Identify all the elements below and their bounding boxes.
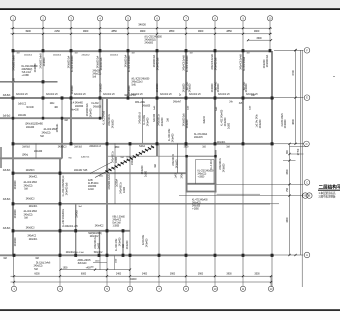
frame bottom border [0, 309, 340, 320]
wall x=75.7 lower-left [75, 204, 77, 256]
bottom overall dimension 24000 [11, 277, 273, 283]
labels under row A [17, 52, 251, 56]
svg-text:240x5C3: 240x5C3 [58, 147, 67, 149]
top dimension line bays [11, 27, 273, 35]
svg-text:2150: 2150 [54, 29, 60, 33]
svg-text:240x400: 240x400 [259, 119, 262, 128]
svg-text:240x500: 240x500 [93, 107, 102, 109]
interior beam upper-left bay y=82 [0, 80, 58, 83]
wall grid 5 x=128 [127, 51, 129, 98]
mid band horizontal annotations [18, 95, 256, 157]
svg-text:240x(C2): 240x(C2) [198, 174, 207, 176]
svg-text:240x5C3: 240x5C3 [26, 228, 35, 230]
svg-text:3900: 3900 [254, 29, 260, 33]
stair side lines [90, 144, 115, 205]
svg-text:2850: 2850 [226, 29, 232, 33]
svg-text:240x400 2x6: 240x400 2x6 [100, 57, 103, 70]
wall grid 7 x=186 [185, 51, 187, 276]
svg-text:KL-4C2 240x500: KL-4C2 240x500 [186, 55, 189, 72]
beam row G y=231 [12, 230, 130, 232]
svg-text:1900: 1900 [63, 267, 69, 269]
svg-text:240x4C2: 240x4C2 [81, 55, 90, 57]
svg-text:34000: 34000 [138, 22, 146, 26]
svg-text:4300: 4300 [286, 217, 289, 223]
svg-text:WKL-240x: WKL-240x [135, 102, 146, 104]
svg-text:3800: 3800 [184, 146, 190, 148]
grid bubble top 2 [40, 16, 45, 51]
grid bubble bottom 6 [127, 276, 132, 291]
svg-text:KL-4C2 240x500: KL-4C2 240x500 [71, 55, 74, 72]
svg-text:240x400 2x6: 240x400 2x6 [156, 57, 159, 70]
svg-text:240x4C1: 240x4C1 [29, 177, 38, 179]
svg-text:3800: 3800 [114, 147, 120, 149]
right vertical dimension line lower [283, 143, 304, 256]
svg-text:240x500: 240x500 [14, 180, 17, 189]
svg-text:240x500: 240x500 [189, 83, 192, 92]
title 二层结构平面图 [318, 184, 340, 191]
svg-text:240x500: 240x500 [176, 159, 179, 168]
svg-text:3900: 3900 [140, 29, 146, 33]
svg-text:240x500: 240x500 [223, 163, 226, 172]
rotated beam labels on upper walls [13, 53, 269, 94]
grid line 4 x=100 [99, 34, 101, 118]
svg-text:240x4C2: 240x4C2 [110, 55, 119, 57]
svg-text:JxB-1C2: JxB-1C2 [18, 104, 27, 106]
stair area annotations [99, 150, 226, 177]
top dimension line overall 34000 [138, 22, 146, 26]
svg-text:240x400: 240x400 [90, 108, 93, 117]
svg-text:8x6 6x40: 8x6 6x40 [78, 263, 87, 265]
svg-text:1.本层梁顶标高: 1.本层梁顶标高 [319, 191, 336, 195]
svg-text:3500: 3500 [254, 273, 260, 276]
svg-text:3x400: 3x400 [98, 242, 101, 249]
svg-text:240x500 x3: 240x500 x3 [139, 112, 142, 124]
svg-text:240x400 2x6: 240x400 2x6 [214, 57, 217, 70]
grid line 2 x=43 [42, 34, 44, 118]
small dim marks x=114.5 bottom [115, 256, 118, 270]
svg-text:+-0.080: +-0.080 [22, 75, 30, 77]
wall x=62 mid-left [61, 118, 63, 159]
grid bubble top 3 [68, 16, 73, 51]
svg-text:C: C [306, 180, 308, 184]
grid bubble bottom 1 [11, 276, 16, 291]
svg-text:(240x): (240x) [22, 155, 28, 157]
svg-text:240x500: 240x500 [183, 83, 186, 92]
svg-text:240x500(2): 240x500(2) [22, 69, 33, 71]
columns row D [12, 142, 274, 145]
svg-text:240x4C2 +C5: 240x4C2 +C5 [64, 226, 78, 228]
svg-text:3x8-4C2 1/3: 3x8-4C2 1/3 [74, 94, 86, 96]
svg-text:3x8-4C2 1/3: 3x8-4C2 1/3 [103, 94, 115, 96]
svg-text:5x8): 5x8) [132, 85, 136, 87]
grid bubble top 7 [183, 16, 188, 51]
mid band rotated annotations [56, 103, 287, 142]
svg-text:KL-3C2 240x5: KL-3C2 240x5 [103, 110, 106, 125]
note fragment right edge [333, 76, 336, 78]
svg-text:240x500 2x6x8: 240x500 2x6x8 [13, 55, 16, 71]
svg-text:4700: 4700 [291, 70, 295, 76]
svg-text:240x5: 240x5 [131, 158, 134, 165]
svg-text:6000: 6000 [81, 273, 87, 276]
svg-text:3x8-4C2 1/3: 3x8-4C2 1/3 [160, 94, 172, 96]
beam row B y=98 [0, 97, 304, 99]
svg-text:1-2850: 1-2850 [113, 225, 120, 227]
svg-text:2.图中未注明板: 2.图中未注明板 [319, 194, 336, 198]
svg-text:3x8-400: 3x8-400 [153, 113, 156, 122]
svg-text:240x500: 240x500 [211, 83, 214, 92]
svg-text:2x300: 2x300 [115, 156, 118, 163]
wall left edge x=1 [0, 147, 2, 168]
svg-text:hb=100: hb=100 [26, 107, 34, 109]
beam row E y=173 [12, 172, 186, 174]
svg-text:240x4C2: 240x4C2 [53, 55, 62, 57]
rotated stubs below row B [154, 105, 252, 111]
wall x=123 lower-left [122, 231, 124, 256]
svg-text:3600: 3600 [256, 37, 262, 40]
wall x=60 lower-left [59, 159, 61, 277]
svg-text:240x500: 240x500 [145, 42, 154, 45]
beam row C y=118 [0, 117, 103, 119]
grid bubble bottom 3 [57, 276, 62, 291]
svg-text:+-2850: +-2850 [192, 209, 199, 211]
svg-text:3x8x40: 3x8x40 [203, 116, 206, 124]
svg-text:二层结构平面图: 二层结构平面图 [319, 184, 340, 191]
svg-text:240x4C1: 240x4C1 [29, 239, 38, 241]
svg-text:240x500: 240x500 [284, 119, 287, 128]
svg-text:240x500 2x4: 240x500 2x4 [266, 54, 269, 67]
columns row B [12, 96, 274, 99]
svg-text:240x500: 240x500 [75, 106, 84, 108]
wall grid 6 x=157 [156, 51, 158, 156]
wall x=102.5 box right [102, 98, 104, 119]
stair flight diagonal [95, 146, 154, 178]
grid bubble top 9 [240, 16, 245, 51]
svg-text:3900: 3900 [198, 273, 204, 276]
svg-text:240x500: 240x500 [88, 186, 97, 188]
svg-text:240x500: 240x500 [217, 83, 220, 92]
grid bubble top 8 [212, 16, 217, 51]
beam row y=156.2 middle [107, 155, 216, 157]
svg-text:41.85 240x: 41.85 240x [88, 183, 99, 185]
svg-text:240x300: 240x300 [192, 206, 201, 208]
svg-text:240x5C3: 240x5C3 [26, 199, 35, 201]
beam row short left y=158 [0, 157, 62, 159]
svg-text:4x95: 4x95 [88, 180, 93, 182]
svg-text:DxK 3x8: DxK 3x8 [113, 222, 122, 224]
svg-text:1x40: 1x40 [175, 173, 178, 179]
svg-text:2850: 2850 [169, 29, 175, 33]
svg-text:3900: 3900 [198, 29, 204, 33]
svg-text:3900: 3900 [170, 273, 176, 276]
svg-text:240x(C2): 240x(C2) [93, 74, 102, 76]
top sub dimension 3600 right [247, 37, 272, 41]
row bubble A right [294, 252, 309, 258]
columns rows E F left [12, 172, 62, 233]
note line 2 [319, 194, 336, 198]
svg-text:3x8-5x3: 3x8-5x3 [3, 115, 11, 117]
svg-text:(240x161)250x450: (240x161)250x450 [25, 124, 43, 126]
right tie lines to bubbles [274, 49, 304, 51]
beam row D y=143.5 [12, 143, 304, 145]
row bubble E right [304, 95, 310, 101]
svg-text:hb=100: hb=100 [71, 110, 79, 112]
svg-text:240x4x7: 240x4x7 [173, 102, 182, 104]
wall x=107 middle [106, 98, 108, 277]
beam label block above stairwell [194, 134, 208, 139]
svg-text:KBL-1 30x60: KBL-1 30x60 [113, 216, 126, 218]
short vertical x=36 left [35, 144, 37, 159]
svg-text:240x400: 240x400 [161, 117, 164, 126]
grid bubble bottom 7 [156, 276, 161, 291]
svg-text:240x500: 240x500 [43, 57, 46, 66]
svg-text:4-460 7x4: 4-460 7x4 [81, 157, 90, 159]
svg-text:1x200x4: 1x200x4 [116, 178, 119, 187]
svg-text:2x8-5x3: 2x8-5x3 [22, 147, 30, 149]
beam label block below stairwell [192, 200, 208, 211]
svg-text:7x8-1.3x3: 7x8-1.3x3 [22, 72, 32, 74]
svg-text:KL-4C2 240x500: KL-4C2 240x500 [128, 55, 131, 72]
svg-text:AWKL-240C5: AWKL-240C5 [78, 259, 92, 262]
svg-text:JxL-4C2 2/8x6: JxL-4C2 2/8x6 [23, 211, 37, 213]
svg-text:240x400 3x8: 240x400 3x8 [65, 182, 68, 195]
wall grid 1 x=13 [12, 51, 15, 276]
grid bubble top 4 [97, 16, 102, 51]
svg-text:KL-4C2 240x5: KL-4C2 240x5 [243, 56, 246, 71]
stairwell inner text block [198, 171, 215, 179]
svg-text:240x400: 240x400 [186, 119, 189, 128]
svg-text:240x(C2): 240x(C2) [42, 133, 51, 135]
svg-text:+-2850: +-2850 [198, 177, 205, 179]
svg-text:240x400: 240x400 [146, 238, 149, 247]
svg-text:240x5C3: 240x5C3 [26, 170, 35, 172]
svg-text:3x8-4C2 1/3: 3x8-4C2 1/3 [189, 94, 201, 96]
svg-text:27700: 27700 [297, 148, 300, 155]
grid bubble top 1 [10, 16, 15, 51]
bottom dimension line bays [11, 273, 273, 278]
svg-text:240x4C1: 240x4C1 [29, 206, 38, 208]
wall x=99.5 lower [99, 231, 102, 270]
grid bubble bottom 8 [183, 276, 188, 291]
svg-text:KL-C92 240x500 x: KL-C92 240x500 x [62, 208, 65, 227]
svg-text:240x500: 240x500 [14, 237, 17, 246]
columns row C [12, 117, 101, 120]
svg-text:KL-C92 240x500: KL-C92 240x500 [198, 171, 215, 173]
svg-text:KL-3C2: KL-3C2 [91, 103, 99, 105]
svg-text:240x161: 240x161 [56, 123, 59, 132]
labels above row B [16, 94, 258, 96]
stairwell box [185, 150, 216, 193]
svg-text:JxL-4C2 2/8x6: JxL-4C2 2/8x6 [23, 182, 37, 184]
lower rooms rotated annotations [14, 158, 157, 251]
svg-text:240x400: 240x400 [263, 59, 266, 68]
svg-text:240x4C2: 240x4C2 [113, 219, 122, 221]
svg-text:240x500: 240x500 [14, 209, 17, 218]
svg-text:3x8-5x3: 3x8-5x3 [3, 95, 11, 97]
row bubble C right [304, 180, 310, 186]
svg-text:2400: 2400 [116, 273, 122, 276]
row bubble F right [304, 48, 310, 54]
svg-text:240x500 2x4x6: 240x500 2x4x6 [108, 174, 111, 190]
beam row H y=255 [0, 254, 304, 256]
grid line x=130 lower [129, 144, 131, 277]
svg-text:2x300: 2x300 [228, 122, 231, 129]
row bubble double B right [303, 193, 313, 199]
grid bubble bottom 11 [240, 276, 245, 291]
svg-text:6000: 6000 [34, 273, 40, 276]
svg-text:240x(C2): 240x(C2) [24, 185, 33, 187]
thin beam x=142.5 [142, 98, 144, 143]
right overall vertical dim [297, 50, 302, 287]
svg-text:(KL-3C92 240x500: (KL-3C92 240x500 [132, 79, 151, 81]
grid bubble bottom 13 [268, 276, 273, 291]
svg-text:24000: 24000 [130, 277, 137, 281]
top annotation block KL-C92 [145, 36, 163, 45]
beam row A y=51 [12, 50, 271, 52]
svg-text:240x4C5: 240x4C5 [192, 203, 201, 205]
svg-text:240x400: 240x400 [147, 117, 150, 126]
extra rotated wall labels lower part of upper band [100, 83, 248, 92]
svg-text:240x500: 240x500 [100, 83, 103, 92]
svg-text:240x4C1: 240x4C1 [217, 142, 226, 144]
stair stub wall x=177.5 [175, 144, 184, 179]
svg-text:3900: 3900 [226, 273, 232, 276]
svg-text:3900: 3900 [25, 29, 31, 33]
svg-text:KL-472 240x4: KL-472 240x4 [194, 134, 208, 136]
svg-text:240x500: 240x500 [245, 83, 248, 92]
upper bay text blocks [22, 63, 246, 92]
grid stub x=62 upper [61, 98, 63, 118]
svg-text:240x500: 240x500 [156, 83, 159, 92]
svg-text:2x300: 2x300 [123, 186, 126, 193]
svg-text:2x8-3x3: 2x8-3x3 [74, 147, 82, 149]
svg-text:3x8-5x3: 3x8-5x3 [3, 228, 11, 230]
note line 1 [319, 191, 336, 195]
svg-text:240x500: 240x500 [93, 71, 102, 73]
svg-text:3x8-4C2 5/3: 3x8-4C2 5/3 [124, 95, 136, 97]
row bubble D right [290, 141, 310, 147]
grid bubble top 6 [154, 16, 159, 51]
svg-text:MW(240x500): MW(240x500) [88, 233, 102, 235]
svg-text:240x400: 240x400 [172, 133, 175, 142]
wall grid 10 right x=272 [271, 51, 273, 287]
svg-text:KL-472 240x400: KL-472 240x400 [192, 200, 208, 202]
svg-text:240x4C2: 240x4C2 [24, 55, 33, 57]
svg-text:KBL-1 3x6: KBL-1 3x6 [74, 252, 84, 254]
svg-text:KL-4 240: KL-4 240 [210, 160, 213, 170]
svg-text:3x8-5x3: 3x8-5x3 [3, 170, 11, 172]
wall grid 3 x=71 [70, 51, 72, 144]
svg-text:240x300: 240x300 [112, 119, 115, 128]
lower-left room annotations [3, 95, 231, 271]
svg-text:L-4 240x400: L-4 240x400 [71, 103, 83, 105]
right vertical dimension line upper [291, 49, 296, 145]
svg-text:240x500: 240x500 [34, 63, 37, 72]
svg-text:240x161: 240x161 [18, 115, 27, 117]
svg-text:2x40x5: 2x40x5 [76, 210, 79, 218]
grid bubble top 10 [267, 16, 272, 51]
svg-text:240x400: 240x400 [126, 240, 129, 249]
bottom sub dimension line left [59, 267, 131, 270]
columns row H [13, 254, 274, 257]
frame top border [0, 0, 340, 10]
svg-text:240x4C2: 240x4C2 [95, 226, 104, 228]
svg-text:240x4C2 x3: 240x4C2 x3 [89, 146, 101, 148]
svg-text:240x400: 240x400 [34, 151, 43, 153]
columns row G [59, 229, 125, 232]
wall grid 8 x=215 [214, 51, 216, 276]
mid-left room blocks [68, 157, 131, 254]
svg-text:240x161 7x45: 240x161 7x45 [74, 170, 88, 172]
grid line x=159 lower [158, 144, 160, 277]
beam row F y=204 [12, 203, 279, 205]
svg-text:2850: 2850 [111, 29, 117, 33]
svg-text:5x8x4: 5x8x4 [139, 146, 145, 148]
svg-text:DL-12(x) 2x4x6: DL-12(x) 2x4x6 [36, 262, 51, 264]
svg-text:1x0x0: 1x0x0 [88, 189, 94, 191]
columns row A [12, 49, 272, 52]
svg-text:3x8-4C2 1/3: 3x8-4C2 1/3 [218, 94, 230, 96]
svg-text:D: D [306, 142, 308, 146]
svg-text:240x(C2)x3: 240x(C2)x3 [132, 82, 144, 84]
svg-text:4600: 4600 [291, 119, 295, 125]
bottom stair small dims [90, 260, 107, 268]
svg-text:240x4C5: 240x4C5 [194, 137, 203, 139]
svg-text:4500: 4500 [286, 169, 289, 175]
svg-text:3x8-4C2 1/3: 3x8-4C2 1/3 [16, 94, 28, 96]
stair landing ties to right bubbles [179, 184, 304, 195]
svg-text:2x300: 2x300 [145, 170, 148, 177]
svg-text:240x4C2: 240x4C2 [27, 235, 36, 237]
grid bubble top 5 [125, 16, 130, 51]
wall grid 9 x=243 [242, 51, 244, 276]
svg-text:240x400: 240x400 [26, 127, 35, 129]
svg-text:240x500: 240x500 [142, 106, 151, 108]
svg-text:3400: 3400 [142, 273, 148, 276]
svg-text:240x(C2): 240x(C2) [34, 266, 43, 268]
svg-text:3x8-4C2 1/3: 3x8-4C2 1/3 [46, 94, 58, 96]
svg-text:3900: 3900 [83, 29, 89, 33]
svg-text:3x8-5x3: 3x8-5x3 [3, 199, 11, 201]
grid bubble bottom 5 [104, 276, 109, 291]
svg-text:240x(C2): 240x(C2) [24, 214, 33, 216]
svg-text:540x4C2: 540x4C2 [94, 252, 103, 254]
grid bubble bottom 10 [212, 276, 217, 291]
